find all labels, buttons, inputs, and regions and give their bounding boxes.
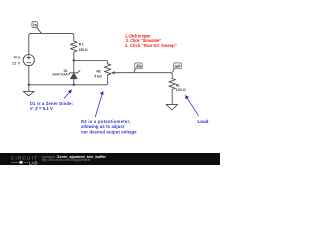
wire Vin bottom to ground rail	[28, 65, 30, 85]
svg-text:Vin: Vin	[14, 55, 20, 59]
svg-text:R1: R1	[79, 42, 84, 46]
footer CircuitLab logo	[11, 156, 38, 166]
resistor RL	[169, 79, 176, 105]
svg-text:RL: RL	[176, 83, 180, 87]
label R1 value	[79, 42, 88, 52]
node label div	[134, 63, 143, 73]
svg-text:1N4733A: 1N4733A	[52, 73, 68, 77]
resistor R1	[71, 41, 78, 61]
wire pot wiper to out corner	[114, 73, 172, 79]
svg-text:5 kΩ: 5 kΩ	[94, 75, 102, 79]
svg-text:12 V: 12 V	[12, 62, 21, 66]
junction node dot at D1 bottom	[73, 84, 75, 86]
svg-text:100 Ω: 100 Ω	[176, 88, 186, 92]
svg-text:R2 is a potentiometer,: R2 is a potentiometer,	[81, 119, 130, 124]
svg-text:our desired output voltage: our desired output voltage	[81, 130, 137, 135]
label D1 value	[52, 69, 68, 76]
label R2 value	[94, 69, 102, 78]
wire top rail from Vin to R1	[29, 34, 74, 55]
diode D1 pin top	[73, 61, 75, 73]
svg-text:V_Z = 5.1 V: V_Z = 5.1 V	[30, 106, 53, 111]
potentiometer R2 body	[104, 64, 111, 76]
svg-text:allowing us to adjust: allowing us to adjust	[81, 124, 125, 129]
footer bar	[0, 153, 220, 165]
voltage source Vin circle	[23, 55, 34, 66]
svg-text:3. Click “Run DC Sweep”: 3. Click “Run DC Sweep”	[125, 43, 177, 48]
svg-text:150 Ω: 150 Ω	[79, 48, 88, 52]
node label out	[172, 63, 181, 73]
svg-text:Load: Load	[198, 119, 209, 124]
blue arrow to R2	[95, 91, 103, 117]
junction node dot at R1/D1/R2	[73, 59, 75, 61]
svg-text:R2: R2	[97, 69, 101, 73]
red instruction text	[125, 33, 177, 48]
ground symbol at RL	[166, 104, 177, 110]
label RL value	[176, 83, 186, 91]
blue annotation D1 text	[30, 101, 73, 111]
wire bottom ground rail	[29, 76, 108, 85]
svg-text:http://circuitlab.com/c/4dg8dm: http://circuitlab.com/c/4dg8dmacle	[42, 158, 91, 162]
ground symbol at Vin	[23, 85, 34, 96]
label Vin value	[12, 55, 21, 65]
zener diode D1	[69, 70, 80, 78]
svg-text:LAB: LAB	[29, 160, 38, 165]
wire node A to R2 top	[74, 61, 108, 64]
blue arrow to RL (Load)	[185, 95, 198, 116]
junction node dot at Vin ground	[28, 84, 30, 86]
diode D1 pin bottom	[73, 79, 75, 85]
blue annotation R2 text	[81, 119, 137, 135]
blue arrow to D1	[64, 89, 72, 98]
pot R2 wiper arrow	[111, 71, 115, 74]
node label in	[32, 21, 41, 33]
